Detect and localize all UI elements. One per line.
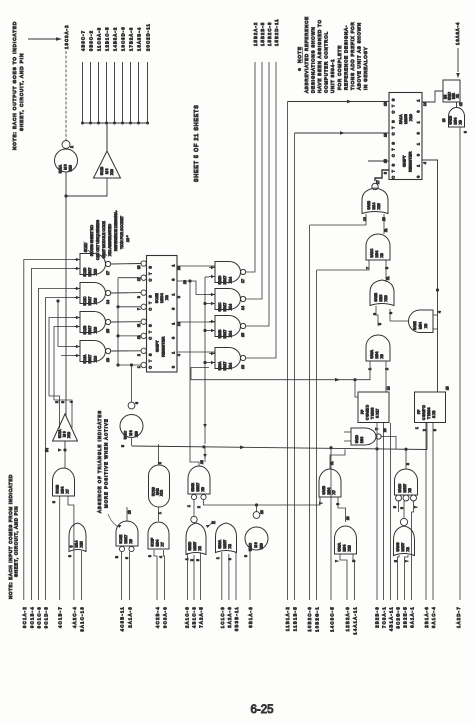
svg-text:0: 0 bbox=[172, 279, 176, 281]
svg-text:FF: FF bbox=[361, 410, 365, 414]
svg-text:C 5A3E D: C 5A3E D bbox=[366, 404, 370, 420]
wire 5B3B bubble to 5A3B bbox=[204, 497, 321, 505]
wire branch to FF1 bbox=[353, 378, 356, 381]
wire to SR2 pin 13 bbox=[288, 101, 390, 103]
svg-text:X13: X13 bbox=[93, 327, 97, 333]
svg-text:X3: X3 bbox=[164, 295, 169, 300]
gate 5C3B M84 X7 bbox=[53, 468, 75, 496]
svg-text:9: 9 bbox=[464, 131, 468, 133]
svg-text:7A2A-5: 7A2A-5 bbox=[199, 606, 204, 628]
shift reg 1 section 1 input bubbles bbox=[141, 261, 146, 266]
svg-text:X13: X13 bbox=[93, 356, 97, 362]
wire 5A3G inputs bbox=[398, 555, 400, 600]
svg-text:13 *: 13 * bbox=[126, 235, 130, 242]
svg-text:15: 15 bbox=[241, 333, 245, 337]
svg-text:5C2C: 5C2C bbox=[83, 296, 87, 305]
svg-text:1: 1 bbox=[172, 352, 176, 354]
wire 5A2A pin1 long left bbox=[191, 361, 370, 380]
wire 5C2D out to SR1 bbox=[111, 263, 141, 266]
svg-text:M317: M317 bbox=[223, 362, 227, 371]
svg-text:0: 0 bbox=[172, 337, 176, 339]
svg-text:3A1C-13: 3A1C-13 bbox=[80, 606, 85, 632]
svg-text:2: 2 bbox=[70, 146, 74, 148]
svg-text:11: 11 bbox=[330, 461, 334, 465]
wire riser 10B2G-1 bbox=[316, 270, 318, 600]
wire riser 11B1B-5 bbox=[294, 133, 296, 600]
gate 5B2B M317 X14 bbox=[215, 316, 241, 337]
svg-text:5C3A: 5C3A bbox=[58, 429, 62, 438]
gate 5C2D M317 X13 bbox=[80, 254, 106, 275]
svg-text:2: 2 bbox=[197, 506, 201, 508]
svg-text:5A2D: 5A2D bbox=[355, 434, 359, 443]
gate 5B2A M317 X14 bbox=[215, 348, 241, 369]
svg-text:4: 4 bbox=[438, 311, 442, 313]
gate 5A2E M84 X9 bbox=[409, 310, 434, 333]
svg-text:C T S: C T S bbox=[392, 97, 396, 113]
wire 16A3A-4 down bbox=[457, 48, 459, 72]
svg-text:M317: M317 bbox=[223, 330, 227, 339]
svg-text:3A2A-6: 3A2A-6 bbox=[227, 606, 232, 628]
svg-text:X19: X19 bbox=[260, 543, 264, 549]
svg-text:5: 5 bbox=[115, 556, 119, 558]
wire 5A2E output to 5A2B bbox=[390, 309, 409, 321]
svg-text:5: 5 bbox=[177, 296, 181, 298]
svg-text:6A1A-1: 6A1A-1 bbox=[409, 606, 414, 628]
svg-text:5: 5 bbox=[393, 506, 397, 508]
wire SR2 out 4 down bbox=[422, 160, 438, 392]
svg-text:X14: X14 bbox=[228, 304, 232, 310]
wire 5A3D bubbles down bbox=[398, 501, 400, 512]
svg-text:5: 5 bbox=[121, 445, 125, 447]
svg-text:5B2D: 5B2D bbox=[218, 275, 222, 284]
svg-text:M84: M84 bbox=[454, 118, 458, 125]
svg-text:8: 8 bbox=[406, 463, 410, 465]
svg-text:1: 1 bbox=[417, 165, 421, 167]
svg-text:5A3D: 5A3D bbox=[398, 483, 402, 492]
svg-text:5: 5 bbox=[378, 323, 382, 325]
svg-text:1: 1 bbox=[417, 143, 421, 145]
wire 5C2A out to SR1 bbox=[111, 350, 141, 352]
gate 5A1B M84 X9 bbox=[449, 108, 465, 128]
svg-text:0: 0 bbox=[172, 366, 176, 368]
svg-text:14A1A-11: 14A1A-11 bbox=[353, 606, 358, 635]
svg-text:8: 8 bbox=[384, 172, 388, 174]
wire 5A2D inputs bbox=[344, 431, 351, 433]
svg-text:3: 3 bbox=[69, 546, 73, 548]
svg-text:9C1B-4: 9C1B-4 bbox=[29, 606, 34, 628]
svg-text:M84: M84 bbox=[156, 540, 160, 547]
svg-text:6A1C-4: 6A1C-4 bbox=[431, 606, 436, 628]
svg-text:4B1C-3: 4B1C-3 bbox=[191, 606, 196, 628]
svg-text:X13 ABBREVIATED: X13 ABBREVIATED bbox=[108, 224, 112, 256]
svg-text:IN GENEALOGY: IN GENEALOGY bbox=[363, 46, 368, 90]
svg-text:REGISTER: REGISTER bbox=[161, 336, 166, 357]
svg-text:15B2D-11: 15B2D-11 bbox=[274, 18, 279, 46]
svg-text:UNIT 8504-1: UNIT 8504-1 bbox=[330, 59, 335, 93]
svg-text:11C3A-8: 11C3A-8 bbox=[97, 27, 102, 51]
svg-text:15: 15 bbox=[446, 386, 450, 390]
wire 5A3B out to SR2 pin 8 bbox=[375, 170, 389, 181]
wire clock col2 down bbox=[204, 447, 206, 462]
svg-text:13: 13 bbox=[200, 460, 204, 464]
svg-text:X16: X16 bbox=[110, 169, 114, 175]
svg-text:13: 13 bbox=[241, 365, 245, 369]
wire FF2 pins down bbox=[425, 423, 427, 600]
svg-text:NOTE: EACH INPUT COMES FROM IN: NOTE: EACH INPUT COMES FROM INDICATED bbox=[8, 474, 13, 599]
svg-text:1: 1 bbox=[216, 557, 220, 559]
wire riser 11B1A-2 bbox=[287, 102, 289, 601]
svg-text:TIONS ADD PREFIX FOR: TIONS ADD PREFIX FOR bbox=[350, 21, 355, 90]
svg-text:4B3C-7: 4B3C-7 bbox=[81, 30, 86, 51]
driver 5C3A M3 X16 bbox=[53, 414, 78, 441]
svg-text:1: 1 bbox=[137, 366, 141, 368]
wire 5B3B bubble down bbox=[193, 500, 195, 517]
svg-text:11: 11 bbox=[384, 228, 388, 232]
wire 1A2D-7 riser bbox=[459, 127, 461, 600]
svg-text:M 9: M 9 bbox=[64, 164, 68, 170]
svg-text:5B2A: 5B2A bbox=[218, 361, 222, 370]
svg-text:5A3G: 5A3G bbox=[396, 542, 400, 551]
svg-text:REGISTER: REGISTER bbox=[408, 151, 413, 172]
wire left input bus bbox=[24, 260, 80, 601]
gate 5C3F M84 X7 bbox=[148, 522, 169, 549]
svg-text:COMPUTER CONTROL: COMPUTER CONTROL bbox=[324, 31, 329, 93]
gate 5C2A M317 X13 bbox=[80, 341, 106, 362]
svg-text:11B1B-5: 11B1B-5 bbox=[292, 606, 297, 631]
svg-text:7: 7 bbox=[319, 502, 323, 504]
gate 5B3B M317 X6 bbox=[188, 466, 210, 494]
svg-text:X13: X13 bbox=[93, 269, 97, 275]
svg-text:X2: X2 bbox=[406, 547, 410, 551]
wire 5C3G bottom bbox=[158, 507, 160, 521]
svg-text:1: 1 bbox=[417, 99, 421, 101]
wire 5C3G top bbox=[158, 444, 160, 465]
svg-text:X7: X7 bbox=[66, 489, 70, 493]
svg-text:M317: M317 bbox=[124, 535, 128, 544]
svg-text:2A1C-8: 2A1C-8 bbox=[184, 606, 189, 628]
wire clock tree T inputs bbox=[118, 277, 141, 279]
wire 5B2C out up bbox=[246, 62, 262, 299]
svg-text:17: 17 bbox=[106, 271, 110, 275]
wire 5C2C out to SR1 bbox=[111, 292, 141, 294]
gate 5B3A M157 X2 bbox=[216, 523, 237, 553]
wire 5B3C bottom bbox=[249, 550, 251, 601]
svg-text:13: 13 bbox=[128, 510, 132, 514]
svg-text:0: 0 bbox=[417, 132, 421, 134]
wire 5C3C bottom to bus bbox=[131, 438, 133, 447]
wire 5C3B out bbox=[64, 450, 66, 468]
svg-text:X19: X19 bbox=[135, 431, 139, 437]
svg-text:X9: X9 bbox=[380, 354, 384, 358]
svg-text:12B2A-9: 12B2A-9 bbox=[345, 606, 350, 631]
svg-text:4: 4 bbox=[70, 401, 74, 403]
svg-text:M317: M317 bbox=[88, 297, 92, 306]
wire riser 14C3C-5 bbox=[330, 448, 332, 600]
wire FF1 pins down bbox=[376, 423, 378, 600]
svg-text:M23: M23 bbox=[379, 295, 383, 302]
wire long horizontal 448 bbox=[132, 446, 427, 450]
svg-text:5B3A: 5B3A bbox=[218, 539, 222, 548]
svg-text:M317 MODULE CODE: M317 MODULE CODE bbox=[102, 221, 106, 258]
svg-text:5A1B: 5A1B bbox=[448, 115, 452, 124]
svg-text:M157: M157 bbox=[193, 542, 197, 551]
svg-text:7: 7 bbox=[405, 560, 409, 562]
svg-text:2B2E-5: 2B2E-5 bbox=[402, 606, 407, 628]
svg-text:X10: X10 bbox=[408, 113, 413, 121]
svg-text:11B1A-2: 11B1A-2 bbox=[285, 606, 290, 631]
svg-text:X2: X2 bbox=[198, 546, 202, 550]
svg-text:10: 10 bbox=[346, 516, 350, 520]
wire 5A3B out up bbox=[330, 449, 345, 469]
svg-text:1: 1 bbox=[415, 427, 419, 429]
wire 5A2E inputs from SR2-4 riser bbox=[433, 314, 438, 316]
svg-text:14: 14 bbox=[241, 306, 245, 310]
svg-text:3: 3 bbox=[68, 555, 72, 557]
wire clock column 2 bbox=[204, 277, 206, 444]
svg-text:5A3C: 5A3C bbox=[370, 248, 374, 257]
wire 5A2A pin2 to FF1 bbox=[385, 361, 387, 392]
svg-text:14: 14 bbox=[106, 300, 110, 304]
driver U 5C1B bbox=[94, 151, 121, 178]
gate 5C3E M317 X6 bbox=[116, 521, 138, 546]
svg-text:SHEET, CIRCUIT, AND PIN: SHEET, CIRCUIT, AND PIN bbox=[14, 506, 19, 577]
svg-text:2: 2 bbox=[137, 354, 141, 356]
svg-text:0: 0 bbox=[417, 154, 421, 156]
svg-text:5C3E: 5C3E bbox=[119, 534, 123, 543]
svg-text:4C3B-11: 4C3B-11 bbox=[120, 606, 125, 631]
svg-text:T M103: T M103 bbox=[371, 407, 375, 419]
svg-text:C T S: C T S bbox=[392, 141, 396, 157]
svg-text:C T S: C T S bbox=[149, 352, 153, 369]
gate 5A2B M23 X18 bbox=[370, 280, 394, 306]
svg-text:6: 6 bbox=[125, 557, 129, 559]
svg-text:5C2D: 5C2D bbox=[84, 242, 88, 252]
svg-text:10: 10 bbox=[442, 118, 446, 122]
svg-text:X15: X15 bbox=[377, 203, 381, 209]
svg-text:12B1C-5: 12B1C-5 bbox=[105, 26, 110, 51]
wire 5A3C pin7 bbox=[317, 260, 370, 270]
svg-text:5C3B: 5C3B bbox=[55, 484, 59, 493]
wire riser 12B2A-9 bbox=[340, 554, 347, 600]
svg-text:5A2A: 5A2A bbox=[370, 349, 374, 358]
svg-text:X19: X19 bbox=[69, 165, 73, 171]
svg-text:REFERENCE DESIGNA-: REFERENCE DESIGNA- bbox=[114, 210, 118, 251]
svg-text:1: 1 bbox=[172, 323, 176, 325]
svg-text:16C3D-9: 16C3D-9 bbox=[121, 26, 126, 51]
gate 5A3G M157 X2 bbox=[400, 518, 407, 525]
one-shot 5A1C M11 X1 bbox=[443, 80, 460, 102]
svg-text:13: 13 bbox=[384, 102, 388, 106]
svg-text:14: 14 bbox=[177, 322, 181, 326]
svg-text:15B2C-8: 15B2C-8 bbox=[267, 21, 272, 46]
svg-text:14: 14 bbox=[423, 102, 427, 106]
svg-text:2B2B-9: 2B2B-9 bbox=[375, 606, 380, 628]
svg-text:10B2G-1: 10B2G-1 bbox=[315, 606, 320, 632]
svg-text:S X8: S X8 bbox=[432, 411, 436, 418]
svg-text:9C1C-6: 9C1C-6 bbox=[37, 606, 42, 628]
svg-text:16: 16 bbox=[384, 133, 388, 137]
gate 5C3D M14 X15 bbox=[69, 523, 86, 552]
svg-text:4C2B-4: 4C2B-4 bbox=[155, 606, 160, 628]
svg-text:19: 19 bbox=[177, 266, 181, 270]
wire SR1 out 20 down to 5B3B bbox=[190, 281, 199, 466]
wire 5C3E inputs bbox=[121, 552, 123, 600]
svg-text:M317: M317 bbox=[223, 303, 227, 312]
svg-text:5C3F: 5C3F bbox=[150, 538, 154, 547]
svg-text:DESIGNATIONS SHOWN: DESIGNATIONS SHOWN bbox=[311, 26, 316, 93]
svg-text:8B3B-11: 8B3B-11 bbox=[234, 606, 239, 631]
svg-text:1: 1 bbox=[187, 505, 191, 507]
svg-text:C T S: C T S bbox=[392, 162, 396, 178]
svg-text:1: 1 bbox=[172, 294, 176, 296]
svg-text:4: 4 bbox=[159, 556, 163, 558]
svg-text:X13: X13 bbox=[93, 298, 97, 304]
svg-text:X15: X15 bbox=[80, 541, 84, 547]
svg-text:M84: M84 bbox=[327, 488, 331, 495]
svg-text:6: 6 bbox=[400, 507, 404, 509]
svg-text:15B2B-5: 15B2B-5 bbox=[260, 22, 265, 46]
gate 5A3A M84 X15 bbox=[335, 526, 357, 554]
svg-text:REFERENCE DESIGNA-: REFERENCE DESIGNA- bbox=[344, 25, 349, 90]
svg-text:M157: M157 bbox=[403, 484, 407, 493]
svg-text:11: 11 bbox=[386, 276, 390, 280]
wire 5C2B out to SR1 bbox=[111, 321, 141, 323]
svg-text:M84: M84 bbox=[343, 545, 347, 552]
wire 5C3E out stub bbox=[126, 507, 128, 521]
wire 5A1C to 5A1B bbox=[456, 102, 458, 108]
gate 5A3C M84 X9 bbox=[366, 234, 390, 260]
svg-text:5B2C: 5B2C bbox=[218, 302, 222, 311]
svg-text:C T S: C T S bbox=[149, 265, 153, 282]
svg-text:17: 17 bbox=[241, 279, 245, 283]
svg-text:3: 3 bbox=[196, 559, 200, 561]
wire 5C3B inputs bbox=[59, 496, 61, 600]
svg-text:X15: X15 bbox=[348, 545, 352, 551]
svg-text:M 9: M 9 bbox=[254, 542, 258, 548]
callout leader lines bbox=[88, 250, 93, 256]
svg-text:M84: M84 bbox=[360, 437, 364, 443]
svg-text:M 3: M 3 bbox=[63, 431, 67, 437]
svg-text:M84: M84 bbox=[375, 251, 379, 258]
wire 5B2A out up bbox=[246, 62, 276, 358]
svg-text:13C3A-2: 13C3A-2 bbox=[64, 24, 69, 49]
gate 5A2D M84 bbox=[351, 428, 376, 445]
svg-text:7: 7 bbox=[414, 506, 418, 508]
svg-text:X7: X7 bbox=[161, 542, 165, 546]
gate 5C2B M317 X13 bbox=[80, 312, 106, 333]
wire 5B3A inputs bbox=[221, 552, 223, 600]
svg-text:17: 17 bbox=[376, 180, 380, 184]
svg-text:7C3A-1: 7C3A-1 bbox=[382, 606, 387, 628]
svg-text:SHEET 5 OF 21 SHEETS: SHEET 5 OF 21 SHEETS bbox=[194, 104, 200, 182]
svg-text:3: 3 bbox=[61, 401, 65, 403]
svg-text:5C1A: 5C1A bbox=[59, 164, 63, 173]
svg-text:3C2G-8: 3C2G-8 bbox=[395, 606, 400, 628]
gate 5A3B M14 X15 bbox=[362, 188, 388, 214]
svg-text:IN: IN bbox=[44, 448, 49, 452]
svg-text:X14: X14 bbox=[228, 331, 232, 337]
svg-text:18A3B-4: 18A3B-4 bbox=[137, 27, 142, 51]
svg-text:2: 2 bbox=[190, 559, 194, 561]
svg-text:2B1A-6: 2B1A-6 bbox=[424, 606, 429, 628]
svg-text:14B3A-2: 14B3A-2 bbox=[113, 27, 118, 51]
svg-text:20C2D-11: 20C2D-11 bbox=[146, 23, 151, 51]
svg-text:X2: X2 bbox=[228, 544, 232, 548]
svg-text:M317: M317 bbox=[223, 276, 227, 285]
wire 5A2D out bbox=[382, 437, 397, 450]
svg-text:M14: M14 bbox=[75, 541, 79, 548]
svg-text:5A3A: 5A3A bbox=[337, 542, 341, 551]
svg-text:X9: X9 bbox=[380, 253, 384, 257]
svg-text:2A1A-3: 2A1A-3 bbox=[128, 606, 133, 628]
svg-text:M84: M84 bbox=[375, 352, 379, 359]
svg-text:7: 7 bbox=[335, 560, 339, 562]
svg-text:NOTE: EACH OUTPUT GOES TO IND: NOTE: EACH OUTPUT GOES TO INDICATED bbox=[12, 21, 17, 150]
svg-text:0: 0 bbox=[417, 176, 421, 178]
svg-text:X1: X1 bbox=[456, 94, 460, 98]
wire 5B2D out up bbox=[246, 62, 255, 272]
wire to SR2 pin 13b bbox=[368, 160, 389, 162]
wire inputs gate 5C2A bbox=[58, 346, 80, 348]
svg-text:3: 3 bbox=[148, 555, 152, 557]
svg-text:5 DWG SHEET NO: 5 DWG SHEET NO bbox=[90, 225, 94, 256]
svg-text:1: 1 bbox=[417, 121, 421, 123]
svg-text:3: 3 bbox=[52, 501, 56, 503]
svg-text:S X17: S X17 bbox=[376, 409, 380, 418]
svg-text:5B3D: 5B3D bbox=[188, 541, 192, 550]
svg-text:11: 11 bbox=[137, 323, 141, 327]
5A3D input bubbles bbox=[396, 495, 402, 501]
svg-text:C T S: C T S bbox=[392, 119, 396, 135]
svg-text:14: 14 bbox=[387, 386, 391, 390]
svg-text:M317: M317 bbox=[88, 355, 92, 364]
svg-text:8: 8 bbox=[352, 560, 356, 562]
wire 5A2B out to 5A3C pin8 bbox=[385, 260, 387, 282]
wire 5A3B pin12 bbox=[310, 214, 367, 225]
svg-text:5A3B: 5A3B bbox=[367, 200, 371, 209]
svg-text:4C1B-7: 4C1B-7 bbox=[58, 606, 63, 628]
svg-text:13: 13 bbox=[106, 358, 110, 362]
svg-text:X9: X9 bbox=[459, 120, 463, 124]
flip-flop 5A3F M104 X8 bbox=[415, 392, 446, 423]
svg-text:5C2A: 5C2A bbox=[83, 354, 87, 363]
svg-text:9B3C-2: 9B3C-2 bbox=[89, 30, 94, 51]
svg-text:X14: X14 bbox=[228, 277, 232, 283]
leader to 5C3E bbox=[108, 514, 119, 527]
svg-text:17B2A-6: 17B2A-6 bbox=[129, 27, 134, 51]
svg-text:4: 4 bbox=[423, 162, 427, 164]
shift register 5A1A M205 X10 bbox=[389, 93, 422, 180]
svg-text:X3: X3 bbox=[408, 488, 412, 492]
gate 5A3D M157 X3 bbox=[395, 469, 418, 495]
wire 5B3D inputs bbox=[187, 553, 189, 600]
svg-text:M317: M317 bbox=[196, 483, 200, 492]
gate 5B2C M317 X14 bbox=[215, 289, 241, 310]
svg-text:16A3A-4: 16A3A-4 bbox=[455, 22, 460, 45]
shift reg 1 section 3 input bubbles bbox=[141, 319, 146, 324]
svg-text:4B1A-11: 4B1A-11 bbox=[389, 606, 394, 631]
svg-text:M157: M157 bbox=[223, 540, 227, 549]
svg-text:9C3A-6: 9C3A-6 bbox=[163, 606, 168, 628]
wire 5A3A to 5A3B bbox=[338, 497, 346, 522]
wire bus junction bbox=[83, 122, 148, 124]
svg-text:C T S: C T S bbox=[149, 323, 153, 340]
gate 5B3D M157 X2 bbox=[186, 523, 206, 555]
svg-text:5C3C: 5C3C bbox=[124, 430, 128, 439]
svg-text:SHEET, CIRCUIT, AND PIN: SHEET, CIRCUIT, AND PIN bbox=[19, 53, 24, 131]
svg-text:15B2A-2: 15B2A-2 bbox=[253, 22, 258, 46]
arrow to 13C3A-2 bbox=[28, 38, 58, 40]
